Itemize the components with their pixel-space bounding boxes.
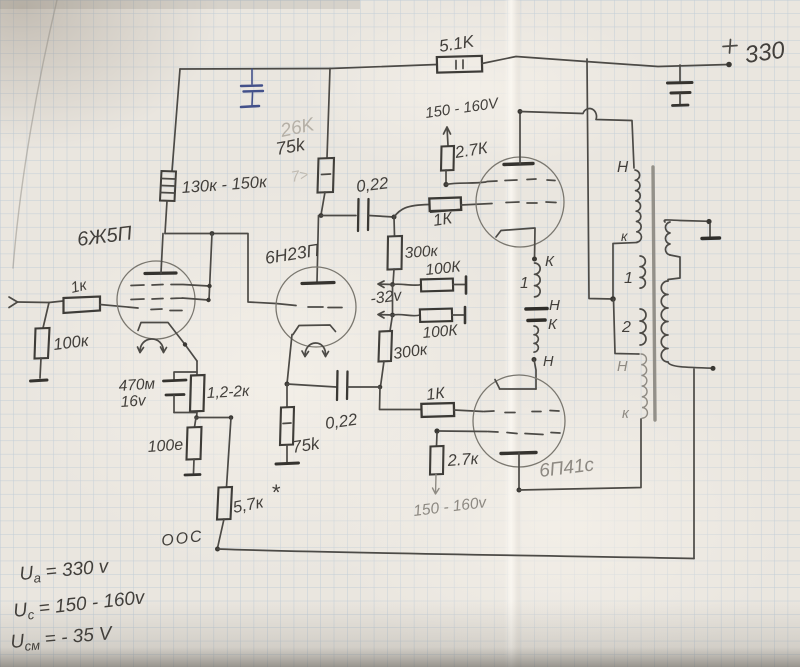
wire B+ drop: [587, 59, 613, 299]
wire 100e to ground: [193, 459, 196, 473]
node 5,7k top: [229, 415, 234, 420]
wire screen node into lower tube: [439, 430, 487, 433]
node D: [378, 385, 383, 390]
wire cap to node A: [369, 216, 394, 218]
wire 75k top lead: [327, 69, 330, 159]
wire 130k to plate node: [165, 201, 167, 234]
wire plate lead 6N23P up: [317, 216, 319, 283]
grid g2 row upper tube: [487, 179, 555, 182]
heater 6Zh5P: [138, 339, 167, 353]
inductor primary lower: [641, 354, 647, 418]
resistor 100K upper: [393, 258, 466, 293]
wire node to 5,7k: [227, 418, 232, 488]
resistor 75k lower: [280, 407, 322, 457]
svg-text:Н: Н: [549, 297, 560, 314]
node +330 terminal: [726, 62, 732, 68]
grid 6N23P: [308, 306, 342, 309]
terminal bar H: [526, 307, 547, 311]
node cathode 6N23P: [285, 382, 290, 387]
wire feedback bottom long: [218, 549, 695, 559]
faint stray pencil line top-left: [13, 0, 57, 268]
resistor 2.7k upper screen: [441, 139, 490, 171]
top-left supply loop wire: [180, 68, 330, 71]
wire 1K to upper tube grid: [461, 204, 492, 206]
wire top rail left of 5.1K: [330, 65, 437, 69]
node center tap: [610, 296, 616, 302]
svg-text:к: к: [622, 406, 630, 422]
wire anode to transformer with hop: [520, 108, 634, 168]
node screen lower: [434, 428, 439, 433]
wire node A to 1K grid resistor: [394, 205, 429, 218]
svg-text:1: 1: [520, 275, 529, 292]
grid g3 row 6Zh5P: [131, 284, 212, 288]
tube 6P41S lower envelope: [473, 375, 565, 467]
grid g2 row 6Zh5P: [131, 298, 211, 302]
resistor 100K lower: [393, 307, 465, 342]
svg-text:К: К: [548, 316, 558, 333]
wire tee to cap 470m: [174, 372, 197, 380]
node cathode upper K: [532, 257, 537, 262]
wire node C to 300k lower: [390, 315, 393, 331]
tube 6Zh5P envelope: [117, 261, 195, 339]
wire top rail right of 5.1K to +330: [482, 57, 729, 67]
wire 300k lower to node D: [381, 361, 385, 387]
wire K jog to center tap: [613, 243, 637, 299]
resistor 5.1K: [437, 32, 482, 73]
inductor primary upper: [635, 170, 641, 242]
resistor 75k upper: [274, 134, 334, 192]
resistor 300k lower: [379, 331, 430, 363]
wire anode lower to transformer: [519, 419, 641, 490]
svg-text:К: К: [545, 253, 555, 270]
wire secondary top to terminal: [664, 220, 709, 222]
node anode lower: [517, 488, 522, 493]
inductor feedback winding 1 cathode: [535, 263, 541, 297]
grid g1 row lower tube: [484, 411, 559, 413]
wire cathode to RC pair: [196, 361, 198, 375]
node secondary top: [706, 219, 711, 224]
node cathode lower H: [532, 357, 537, 362]
svg-text:7>: 7>: [290, 166, 310, 186]
wire cathode down: [287, 335, 292, 385]
capacitor 470m 16v: [118, 375, 186, 412]
ground 100e: [185, 473, 200, 476]
wire node to cap 0,22 upper: [321, 215, 356, 217]
wire secondary bottom to terminal: [668, 362, 713, 368]
resistor 2.7k lower screen: [430, 433, 480, 475]
anode 6N23P: [302, 283, 334, 284]
resistor 1K upper grid: [429, 197, 461, 230]
wire 5,7k to OOC node: [218, 519, 225, 548]
svg-text:100e: 100e: [147, 437, 184, 456]
svg-text:16v: 16v: [120, 392, 147, 411]
resistor 1K lower grid: [421, 385, 454, 417]
cathode upper 6P41S: [496, 228, 535, 259]
cathode 6Zh5P: [138, 323, 197, 362]
wire 300k to node B: [393, 269, 394, 285]
node plate of 6N23P: [319, 213, 324, 218]
wire cathode node to cap 0,22 lower: [287, 384, 336, 387]
svg-text:Н: Н: [617, 159, 629, 176]
cathode 6N23P: [293, 325, 336, 335]
wire center tap to lower primary H: [614, 299, 640, 354]
heater 6N23P: [302, 343, 329, 357]
wire 75k bottom to plate/cap node: [321, 192, 325, 215]
wire bottom tee of RC pair: [174, 413, 197, 418]
resistor 5,7k: [217, 480, 281, 520]
wire 100k to ground: [40, 358, 41, 378]
ground input: [31, 380, 48, 381]
wire screen tie vertical: [209, 234, 212, 301]
svg-text:330: 330: [743, 37, 787, 69]
resistor 100k input: [35, 328, 91, 359]
anode 6Zh5P: [145, 234, 176, 274]
node anode upper: [518, 109, 523, 114]
wire 1K lower to grid: [454, 410, 483, 412]
wire anode node to 6N23P grid: [165, 234, 296, 306]
resistor 130k-150k: [160, 171, 269, 201]
svg-text:2.7к: 2.7к: [446, 450, 480, 470]
wire 1K to grid 6Zh5P: [100, 305, 138, 309]
wire to 5,7k node: [197, 417, 232, 419]
node screen tie top: [210, 231, 215, 236]
terminal bar K: [528, 318, 545, 322]
node cathode bend: [183, 342, 187, 346]
capacitor blue top-left: [241, 69, 263, 107]
grid g1 row upper tube: [506, 202, 556, 203]
tube 6N23P envelope: [276, 267, 356, 347]
node cathode bottom: [194, 415, 199, 420]
wire node A down to 300k upper: [393, 217, 396, 236]
node screen upper: [443, 182, 448, 187]
svg-text:Н: Н: [617, 359, 628, 375]
wire winding2 to lower cathode: [534, 360, 536, 390]
node B with left arrow: [378, 281, 395, 288]
node A: [392, 215, 397, 220]
inductor secondary upper: [665, 222, 670, 255]
resistor 1K input: [64, 277, 101, 313]
resistor 300k upper: [388, 236, 440, 270]
inductor secondary lower: [661, 281, 668, 362]
anode lower 6P41S: [501, 453, 536, 490]
svg-text:Н: Н: [543, 354, 554, 370]
wire secondary jog: [668, 255, 680, 281]
wire node to 100e: [195, 418, 197, 428]
resistor 100e: [147, 427, 201, 460]
wire node B to node C: [392, 285, 394, 316]
arrow up to 150-160V: [444, 127, 451, 146]
ground secondary top: [702, 224, 720, 239]
node secondary bottom: [711, 366, 716, 371]
inductor winding 2 transformer: [640, 309, 646, 345]
inductor winding 1 transformer: [640, 256, 645, 288]
wire 2.7k to screen node: [445, 170, 447, 184]
wire node D to 1K lower: [380, 387, 422, 410]
svg-text:1,2-2к: 1,2-2к: [206, 383, 250, 402]
svg-text:300к: 300к: [404, 243, 439, 262]
wire feedback right vertical: [693, 369, 695, 559]
wire 75k lower lead: [286, 384, 288, 407]
label +: [723, 40, 737, 54]
wire cap to node D: [348, 386, 380, 388]
svg-text:к: к: [621, 229, 628, 244]
tube 6P41S upper envelope: [476, 157, 564, 247]
input terminal arrow: [9, 297, 18, 308]
svg-text:1: 1: [624, 270, 633, 287]
capacitor 0,22 lower: [324, 371, 358, 433]
cathode lower 6P41S: [495, 380, 536, 390]
capacitor 0,22 upper: [355, 174, 389, 231]
wire screen node into tube: [446, 182, 486, 185]
wire 75k to ground: [286, 445, 288, 462]
ground 75k: [276, 463, 299, 464]
grid g2 row lower tube: [488, 432, 560, 435]
anode upper 6P41S: [504, 112, 533, 165]
inductor feedback winding 2 cathode: [534, 326, 538, 352]
node OOC: [215, 547, 220, 552]
svg-text:2: 2: [621, 319, 631, 336]
wire input node down to 100k: [43, 303, 49, 329]
capacitor filter at +330: [668, 65, 693, 106]
wire input to 1K: [18, 301, 64, 303]
wire left vertical of supply loop: [172, 69, 180, 171]
arrow down 150-160v lower: [433, 475, 440, 495]
svg-text:100К: 100К: [422, 322, 459, 342]
node C with left arrow: [378, 312, 395, 319]
resistor 1,2-2k: [190, 375, 250, 412]
transformer core: [653, 167, 655, 420]
grid g1 row 6Zh5P: [151, 309, 182, 311]
svg-text:*: *: [271, 480, 281, 505]
